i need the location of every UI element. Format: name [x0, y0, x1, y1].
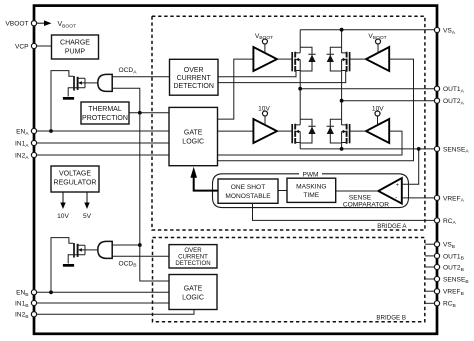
junction sense tap	[417, 147, 421, 151]
svg-text:LOGIC: LOGIC	[182, 295, 204, 302]
junction OUT2 at Q4	[340, 99, 344, 103]
wire gate logic A to driver U7 input	[218, 59, 254, 119]
wire Q2 drain to OCD gate B	[85, 249, 99, 251]
wire SENSE rail	[300, 148, 434, 150]
wire ENB riser to sense FET gate B	[51, 238, 73, 293]
wire IN1A to gate logic A	[37, 142, 169, 144]
charge pump U1	[52, 35, 99, 59]
svg-text:ONE SHOT: ONE SHOT	[231, 184, 265, 191]
10V output arrow	[60, 192, 65, 209]
svg-text:SENSE: SENSE	[349, 194, 372, 201]
wire ENA riser to sense FET gate A	[51, 71, 73, 131]
junction Q6 source at SENSE rail	[340, 147, 344, 151]
svg-text:DETECTION: DETECTION	[173, 83, 213, 90]
wire one shot to masking time	[278, 190, 287, 192]
masking time U5	[287, 178, 336, 202]
wire U7 to Q3 gate	[277, 58, 292, 60]
svg-text:CHARGE: CHARGE	[60, 40, 90, 47]
transistor Q2 sense FET B	[68, 243, 85, 264]
wire RCA to one shot monostable	[253, 203, 438, 220]
wire Q3 source bus to OUT1	[299, 71, 301, 89]
pin ENA	[16, 128, 37, 136]
wire U9 to Q5 gate	[277, 130, 292, 132]
svg-text:+: +	[396, 182, 399, 188]
label SENSE COMPARATOR	[343, 194, 389, 208]
wire ENB to gate logic B	[37, 291, 169, 293]
svg-text:BRIDGE B: BRIDGE B	[376, 314, 406, 321]
wire sense tap to comparator plus input	[402, 149, 419, 184]
driver U8 high side right	[366, 39, 389, 71]
pin VSB with stub	[425, 242, 455, 250]
wire Q5 source bus to SENSE rail	[299, 143, 301, 149]
bridge B dashed boundary	[153, 238, 425, 322]
driver U7 high side left	[253, 39, 277, 71]
wire OCD to Q4 source	[218, 71, 346, 83]
svg-text:MONOSTABLE: MONOSTABLE	[225, 193, 271, 200]
wire Q6 drain bus to OUT2	[341, 101, 343, 125]
wire IN2B to gate logic B bottom	[37, 310, 194, 315]
svg-text:-: -	[395, 194, 397, 201]
wire thermal line down to gate logic B	[140, 113, 169, 281]
svg-text:DETECTION: DETECTION	[175, 260, 210, 267]
pin OUT2B with stub	[425, 264, 464, 272]
wire VREFA to comparator minus input	[402, 197, 437, 199]
diode D4 body diode Q6	[327, 119, 342, 143]
svg-text:COMPARATOR: COMPARATOR	[343, 202, 389, 209]
driver U10 low side right	[366, 111, 389, 143]
svg-text:GATE: GATE	[184, 130, 203, 137]
one shot monostable U4	[218, 179, 278, 203]
svg-text:VOLTAGE: VOLTAGE	[59, 171, 91, 178]
wire thermal protection to gate logic A	[129, 112, 169, 114]
svg-text:10V: 10V	[258, 105, 270, 112]
wire Q3 drain bus to VS rail	[299, 30, 301, 53]
wire U10 to Q6 gate	[350, 130, 366, 132]
junction OCD gate B output	[138, 243, 142, 247]
pin RCA	[434, 218, 456, 226]
PWM group outline	[213, 174, 409, 208]
svg-text:THERMAL: THERMAL	[88, 106, 122, 113]
svg-text:REGULATOR: REGULATOR	[54, 180, 97, 187]
sense comparator U6	[378, 178, 402, 204]
wire Q6 source bus to SENSE rail	[341, 143, 343, 149]
voltage regulator U2	[51, 166, 99, 192]
junction OUT1 at Q3	[298, 87, 302, 91]
wire gate logic A to driver U8 input	[218, 59, 414, 161]
wire OUT1 rail	[300, 88, 434, 90]
svg-text:MASKING: MASKING	[296, 183, 326, 190]
wire OCD to Q3 source	[218, 71, 296, 77]
driver U9 low side left	[253, 111, 277, 143]
svg-text:OVER: OVER	[184, 67, 204, 74]
pin IN1B	[15, 300, 37, 308]
OCD comparator gate B (D-shape)	[98, 241, 112, 258]
wire Q5 drain bus to OUT1	[299, 89, 301, 125]
svg-text:VCP: VCP	[15, 43, 29, 50]
wire gate logic A to driver U10 input	[218, 131, 403, 155]
svg-text:BRIDGE A: BRIDGE A	[377, 223, 407, 230]
wire IN1B to gate logic B	[37, 302, 169, 304]
svg-text:LOGIC: LOGIC	[182, 139, 204, 146]
over current detection B	[169, 245, 217, 268]
gate logic A	[169, 107, 218, 165]
pin OUT1A	[434, 86, 464, 94]
ground A	[63, 97, 74, 100]
wire VS rail	[300, 29, 434, 31]
svg-text:CURRENT: CURRENT	[177, 75, 212, 82]
pin OUT1B with stub	[425, 253, 464, 261]
svg-text:VBOOT: VBOOT	[5, 21, 28, 28]
svg-text:GATE: GATE	[184, 286, 203, 293]
svg-text:10V: 10V	[57, 213, 69, 220]
pin IN2A	[15, 152, 37, 160]
svg-text:PROTECTION: PROTECTION	[82, 115, 128, 122]
OCD comparator gate A (D-shape)	[98, 74, 112, 91]
diode D1 body diode Q3	[300, 47, 316, 71]
wire VCP to charge pump	[37, 45, 52, 47]
wire ENA to gate logic A	[37, 130, 169, 132]
pin OUT2A	[434, 98, 464, 106]
pin VSA	[434, 27, 455, 35]
wire gate logic A to driver U9 input	[218, 130, 254, 132]
bridge A dashed boundary	[152, 16, 425, 230]
pin SENSEB with stub	[425, 276, 469, 284]
pin VREFA	[434, 195, 464, 203]
pin RCB with stub	[425, 301, 456, 309]
arrow to VBOOT net	[37, 20, 52, 26]
5V output arrow	[84, 192, 89, 209]
wire Q4 source bus to OUT2	[341, 71, 343, 101]
junction ENB	[49, 290, 53, 294]
pin SENSEA	[434, 146, 469, 154]
svg-text:5V: 5V	[83, 213, 92, 220]
ground B	[63, 264, 74, 267]
transistor Q6 low side right	[342, 124, 350, 144]
over current detection A	[170, 59, 219, 95]
pin IN1A	[15, 140, 37, 148]
diode D3 body diode Q5	[300, 119, 316, 143]
pin VREFB with stub	[425, 289, 464, 297]
pin VCP	[15, 43, 37, 50]
transistor Q1 sense FET A	[68, 76, 85, 97]
junction ENA	[49, 129, 53, 133]
diode D2 body diode Q4	[327, 47, 342, 71]
wire OCDB to over current detection B	[112, 255, 169, 257]
wire comparator output to masking time	[336, 190, 379, 192]
transistor Q5 low side left	[292, 124, 300, 144]
pin ENB	[16, 290, 37, 298]
transistor Q4 high side right	[342, 52, 350, 72]
wire OCD gate A lower output to gate logic A	[112, 88, 140, 113]
wire Q1 drain to OCD gate A	[85, 82, 99, 84]
pin VBOOT	[5, 21, 36, 28]
thermal protection U3	[81, 102, 129, 124]
transistor Q3 high side left	[292, 52, 300, 72]
wire IN2A to gate logic A	[37, 154, 169, 156]
svg-text:10V: 10V	[372, 105, 384, 112]
pin IN2B	[15, 312, 37, 320]
wire one shot output arrow into gate logic A	[190, 167, 218, 191]
wire OCD gate B upper output to thermal line junction	[112, 244, 140, 246]
svg-text:TIME: TIME	[303, 192, 319, 199]
junction Q4 drain at VS rail	[340, 28, 344, 32]
junction thermal line A	[138, 111, 142, 115]
wire OCDA to over current detection A	[112, 76, 169, 78]
gate logic B	[169, 275, 217, 310]
svg-text:PUMP: PUMP	[65, 49, 86, 56]
wire U8 to Q4 gate	[350, 58, 366, 60]
wire OUT2 rail	[342, 100, 435, 102]
wire Q4 drain bus to VS rail	[341, 30, 343, 53]
